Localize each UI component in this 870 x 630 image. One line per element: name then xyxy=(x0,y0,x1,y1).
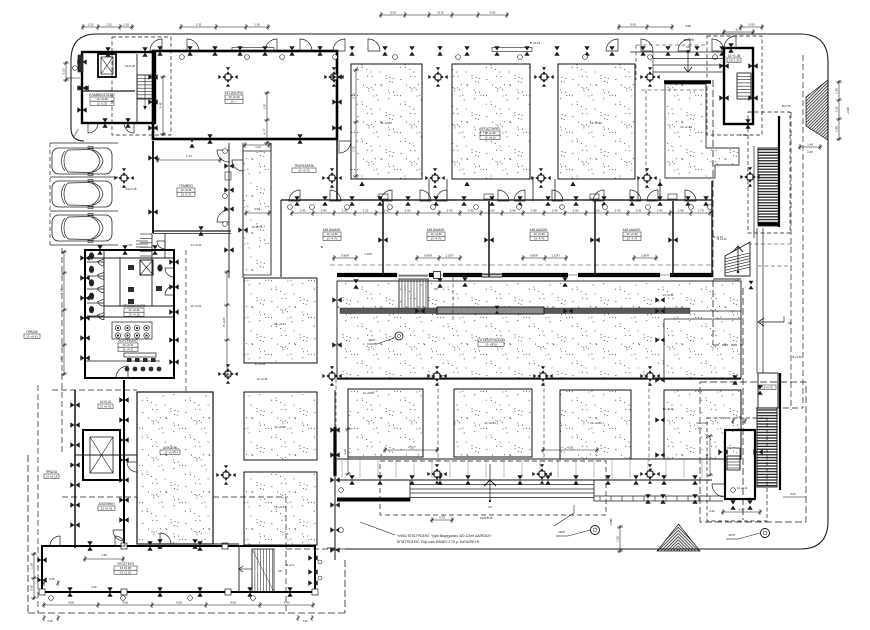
svg-text:-0.685: -0.685 xyxy=(609,518,613,526)
corridor window boxes xyxy=(379,194,388,199)
svg-text:0.90Π: 0.90Π xyxy=(341,253,349,257)
office dim xyxy=(156,159,222,161)
svg-text:13 +0.41: 13 +0.41 xyxy=(101,506,113,510)
svg-text:13 +4.15: 13 +4.15 xyxy=(128,312,140,316)
svg-text:1.40: 1.40 xyxy=(807,142,813,146)
left dimension column xyxy=(65,61,67,82)
bowties toilet top xyxy=(97,245,102,254)
svg-text:0.70: 0.70 xyxy=(439,515,445,519)
svg-text:ΑΙΘ.ΔΙΔΑΣΚ.: ΑΙΘ.ΔΙΔΑΣΚ. xyxy=(427,228,446,232)
svg-text:4.00: 4.00 xyxy=(122,600,128,604)
svg-text:1.10Π: 1.10Π xyxy=(551,253,559,257)
svg-text:Β+0.75: Β+0.75 xyxy=(684,38,694,42)
wing dashed boundary xyxy=(27,455,29,613)
svg-text:+3.48: +3.48 xyxy=(846,107,850,115)
svg-text:13 +0.41: 13 +0.41 xyxy=(274,505,286,509)
svg-text:13+0.75: 13+0.75 xyxy=(762,385,773,389)
center south wall xyxy=(333,427,336,476)
wing west block xyxy=(74,390,76,548)
hall spine bench xyxy=(340,308,690,314)
dim 1.40 2.45 east xyxy=(798,146,822,148)
right dim column xyxy=(838,80,840,141)
svg-text:13+1.35: 13+1.35 xyxy=(729,58,740,62)
left small dims xyxy=(63,250,65,376)
wing bubbles xyxy=(49,596,54,601)
elevator 2 xyxy=(83,430,120,480)
svg-text:13 +0.41: 13 +0.41 xyxy=(191,243,202,247)
elevator shaft xyxy=(98,54,116,77)
svg-text:Β +0.15: Β +0.15 xyxy=(530,41,541,45)
svg-text:5.00: 5.00 xyxy=(390,10,396,14)
bowties south facade xyxy=(349,475,354,484)
svg-text:4.77: 4.77 xyxy=(262,128,266,134)
svg-text:0.50: 0.50 xyxy=(29,585,33,591)
svg-text:UP: UP xyxy=(686,45,690,49)
bowties SE block xyxy=(718,449,727,454)
dashed property east xyxy=(712,80,714,345)
svg-text:6.00: 6.00 xyxy=(739,507,745,511)
svg-text:2.40: 2.40 xyxy=(447,208,453,212)
svg-text:13 +2.20: 13 +2.20 xyxy=(120,570,132,574)
entry up arrow xyxy=(489,500,491,502)
svg-text:2.40: 2.40 xyxy=(384,208,390,212)
svg-text:Β+0.75: Β+0.75 xyxy=(782,104,791,108)
svg-text:13 +0.75: 13 +0.75 xyxy=(298,168,310,172)
svg-text:1.20: 1.20 xyxy=(615,536,619,542)
top dimension row xyxy=(81,26,134,28)
svg-text:4.25: 4.25 xyxy=(408,445,414,449)
escalator upper xyxy=(758,148,779,226)
bowties corridor xyxy=(294,196,299,205)
svg-text:1.50: 1.50 xyxy=(59,288,63,294)
svg-text:1.10Π: 1.10Π xyxy=(445,253,453,257)
office east wall details xyxy=(225,172,231,180)
car 2 xyxy=(52,180,112,209)
svg-text:ΕΡΓΑΣΤΗΡΙΟ: ΕΡΓΑΣΤΗΡΙΟ xyxy=(480,127,500,131)
gym room xyxy=(137,392,213,544)
stair tower dashed envelope xyxy=(707,36,762,135)
svg-text:13 +4.21: 13 +4.21 xyxy=(122,347,134,351)
svg-text:UP: UP xyxy=(129,244,133,247)
hall columns xyxy=(218,67,237,86)
svg-text:5.00: 5.00 xyxy=(630,22,636,26)
wing wall columns xyxy=(121,543,127,549)
detail circle south 1 xyxy=(591,526,600,535)
wing door west xyxy=(50,536,60,546)
svg-text:1.10: 1.10 xyxy=(254,22,260,26)
entry steps south xyxy=(410,484,594,486)
wing staircase xyxy=(238,546,240,592)
detail circle south 2 xyxy=(761,529,770,538)
svg-text:Β +4.05: Β +4.05 xyxy=(222,317,226,327)
escalator column xyxy=(740,167,759,186)
toilet stalls left xyxy=(103,250,105,316)
svg-text:13 -4.70: 13 -4.70 xyxy=(431,236,442,240)
hall dashed axis xyxy=(452,277,454,320)
west wall lower xyxy=(123,380,125,548)
svg-text:13 +0.41: 13 +0.41 xyxy=(26,334,38,338)
sink counter xyxy=(112,322,152,339)
east wall upper xyxy=(778,116,780,227)
corridor dims xyxy=(290,212,712,214)
SE small room xyxy=(758,373,778,408)
lower office band xyxy=(153,233,231,235)
svg-text:4.50: 4.50 xyxy=(254,207,260,211)
svg-text:13 +0.41: 13 +0.41 xyxy=(663,407,674,411)
svg-text:13 +4.10: 13 +4.10 xyxy=(484,135,496,139)
staircase U1 xyxy=(137,75,153,99)
west dashed 2 xyxy=(37,385,39,613)
door hall SE xyxy=(339,141,351,153)
north dims small xyxy=(266,91,268,145)
svg-text:1.20: 1.20 xyxy=(29,563,33,569)
wing walls xyxy=(42,546,315,592)
classroom D2 xyxy=(664,390,741,459)
svg-text:2.40: 2.40 xyxy=(468,208,474,212)
south facade glazing xyxy=(337,479,712,481)
svg-text:ΠΡΑΣΙΑ: ΠΡΑΣΙΑ xyxy=(46,470,58,474)
bowties east corridor xyxy=(655,297,664,302)
classroom B1 xyxy=(452,64,530,179)
svg-text:13 +1.80: 13 +1.80 xyxy=(590,121,602,125)
svg-text:13 +0.41: 13 +0.41 xyxy=(164,450,176,454)
svg-text:13 +0.41: 13 +0.41 xyxy=(737,486,748,490)
svg-text:Β: Β xyxy=(650,467,652,471)
hall detail marker xyxy=(395,332,403,340)
corridor wall y201 xyxy=(281,199,712,201)
window sill top xyxy=(232,48,274,52)
svg-text:13 —: 13 — xyxy=(231,99,238,103)
top hall walls xyxy=(153,51,337,139)
svg-text:1.10Π: 1.10Π xyxy=(364,252,371,256)
svg-text:13 +0.41: 13 +0.41 xyxy=(663,293,674,297)
svg-text:1.25: 1.25 xyxy=(834,106,838,112)
shaft bubbles xyxy=(223,149,228,154)
svg-text:13+0.41: 13+0.41 xyxy=(100,400,112,404)
horizontal dashed mid xyxy=(62,496,137,498)
row1 columns bottom xyxy=(322,168,341,187)
svg-text:Β +0.4: Β +0.4 xyxy=(286,563,294,567)
svg-text:ΛΕΠΤ.: ΛΕΠΤ. xyxy=(368,338,376,342)
wing bowties top xyxy=(87,541,92,550)
top-left service block walls xyxy=(82,52,155,123)
svg-text:13 +0.80: 13 +0.80 xyxy=(590,421,602,425)
svg-text:2.11: 2.11 xyxy=(106,22,112,26)
doors on corridor wall xyxy=(289,190,300,201)
svg-text:ΑΙΘ.ΔΙΔΑΣΚ.: ΑΙΘ.ΔΙΔΑΣΚ. xyxy=(530,228,549,232)
parking column marker xyxy=(114,168,133,187)
car 3 xyxy=(52,214,112,243)
stair room SE xyxy=(725,430,755,499)
svg-text:ΑΙΘΟΥΣΑ: ΑΙΘΟΥΣΑ xyxy=(163,446,178,450)
connection corridor xyxy=(137,543,239,545)
svg-text:1.93: 1.93 xyxy=(342,208,348,212)
svg-text:ΥΛΙΚΟ ΕΠΙΣΤΡΩΣΗΣ: Υγρό Βιομηχα: ΥΛΙΚΟ ΕΠΙΣΤΡΩΣΗΣ: Υγρό Βιομηχανικό 320 1… xyxy=(397,534,492,538)
svg-text:1.80Π: 1.80Π xyxy=(641,253,649,257)
classroom D1 xyxy=(665,84,739,178)
svg-text:ΑΙΘ.ΔΙΔΑΣΚ.: ΑΙΘ.ΔΙΔΑΣΚ. xyxy=(323,228,342,232)
svg-text:0.90Π: 0.90Π xyxy=(530,253,538,257)
dim south small xyxy=(430,519,454,521)
toilet upper corridor xyxy=(85,257,174,259)
hall south wall xyxy=(337,378,741,380)
east walkway lines xyxy=(756,228,758,373)
svg-text:2.10: 2.10 xyxy=(736,415,742,419)
svg-text:0.20: 0.20 xyxy=(709,509,715,513)
left lower bowties xyxy=(70,402,79,407)
door gym west xyxy=(113,530,124,541)
corridor doors xyxy=(232,160,243,171)
stair tower NE xyxy=(724,48,753,124)
svg-text:4.00: 4.00 xyxy=(176,600,182,604)
toilet block walls xyxy=(85,250,174,378)
bowties stair tower xyxy=(719,63,728,68)
doors on north wall xyxy=(150,39,162,51)
svg-text:ΛΕΠΤ.: ΛΕΠΤ. xyxy=(728,533,736,537)
svg-text:ΥΠΟΣΤΕΓΟ: ΥΠΟΣΤΕΓΟ xyxy=(117,562,135,566)
svg-text:ΚΛΙΜΑΚΟΣΤΑΣΙΟ: ΚΛΙΜΑΚΟΣΤΑΣΙΟ xyxy=(89,93,115,97)
grid bubbles north xyxy=(180,55,185,60)
dashed line y265 xyxy=(330,264,712,266)
svg-text:13 -4.70: 13 -4.70 xyxy=(627,236,638,240)
svg-text:0.18: 0.18 xyxy=(302,619,308,623)
svg-text:Β +0.50: Β +0.50 xyxy=(792,355,802,359)
svg-text:4.08: 4.08 xyxy=(685,24,691,28)
svg-text:13 +0.41: 13 +0.41 xyxy=(100,404,112,408)
toilet mid walls xyxy=(119,258,121,306)
svg-text:13+0.20: 13+0.20 xyxy=(125,64,136,68)
svg-text:1.70: 1.70 xyxy=(698,208,704,212)
interior wall xyxy=(83,90,135,92)
svg-text:13 +0.21: 13 +0.21 xyxy=(191,304,202,308)
dashed envelope top-left xyxy=(112,37,171,135)
svg-text:13 +0.41: 13 +0.41 xyxy=(255,362,266,366)
stair east slanted xyxy=(725,242,750,276)
toilet right rooms xyxy=(151,258,153,306)
triangle marks under row1 xyxy=(359,182,364,187)
svg-text:1.40: 1.40 xyxy=(657,208,663,212)
svg-text:2.40: 2.40 xyxy=(510,208,516,212)
toilet door south xyxy=(116,366,128,378)
stair SE dashed envelope xyxy=(707,418,767,521)
stair shaft stipple strip xyxy=(243,151,271,275)
vertical dim 1.20 xyxy=(619,525,621,553)
svg-text:13 +0.18: 13 +0.18 xyxy=(46,474,58,478)
door top-left block xyxy=(88,123,98,133)
svg-text:4.20: 4.20 xyxy=(567,445,573,449)
svg-text:3.10: 3.10 xyxy=(343,449,347,455)
car 1 xyxy=(52,147,112,176)
svg-text:13 +0.80: 13 +0.80 xyxy=(696,421,708,425)
svg-text:2.40: 2.40 xyxy=(678,208,684,212)
svg-text:13Χ18/16: 13Χ18/16 xyxy=(480,516,493,520)
escalator lower xyxy=(757,408,777,487)
svg-text:1.57: 1.57 xyxy=(262,103,266,109)
east walkway arrow xyxy=(760,321,784,323)
mini stair west xyxy=(140,233,152,235)
svg-text:1.40: 1.40 xyxy=(531,208,537,212)
svg-text:7.48: 7.48 xyxy=(101,553,107,557)
svg-text:1.40: 1.40 xyxy=(834,88,838,94)
lower rooms partitions xyxy=(382,201,384,277)
svg-text:5.00: 5.00 xyxy=(749,22,755,26)
svg-text:4.00: 4.00 xyxy=(284,600,290,604)
bowties hall perimeter xyxy=(148,74,157,79)
bottom fixtures xyxy=(125,367,130,372)
svg-text:1.40: 1.40 xyxy=(300,208,306,212)
svg-text:ΤΡΑΠΕΖΑΡΙΑ: ΤΡΑΠΕΖΑΡΙΑ xyxy=(294,164,314,168)
svg-text:UP: UP xyxy=(788,321,792,325)
bowties on spine xyxy=(415,308,424,313)
classroom C2 xyxy=(560,390,631,459)
entry dashed surround xyxy=(380,461,606,515)
hall stair xyxy=(399,279,428,309)
svg-text:1.10: 1.10 xyxy=(123,22,129,26)
row1 columns top xyxy=(428,67,447,86)
escalator dashed envelope xyxy=(748,112,790,233)
svg-text:1.10: 1.10 xyxy=(88,22,94,26)
mini stair up xyxy=(136,240,148,242)
svg-text:13 +0.41: 13 +0.41 xyxy=(274,322,286,326)
svg-text:1.22: 1.22 xyxy=(363,208,369,212)
svg-text:ΠΡΟΘΑΛΑΜΟΣ: ΠΡΟΘΑΛΑΜΟΣ xyxy=(123,304,146,308)
dashed aisle east xyxy=(185,250,187,392)
facade mullions xyxy=(341,459,343,478)
classroom B2 xyxy=(454,389,532,457)
svg-text:13 +1.10: 13 +1.10 xyxy=(680,125,692,129)
row2 columns xyxy=(322,366,341,385)
svg-text:13 +0.80: 13 +0.80 xyxy=(274,425,286,429)
svg-text:2.40: 2.40 xyxy=(321,208,327,212)
svg-text:13 +0.41: 13 +0.41 xyxy=(257,377,268,381)
svg-text:ΑΙΘ.ΔΙΔΑΣΚ.: ΑΙΘ.ΔΙΔΑΣΚ. xyxy=(623,228,642,232)
svg-text:0.90: 0.90 xyxy=(92,586,97,589)
svg-text:ΑΠΟΘΗΚΗ: ΑΠΟΘΗΚΗ xyxy=(98,502,115,506)
svg-text:UP: UP xyxy=(488,505,492,509)
svg-text:1.12: 1.12 xyxy=(186,154,192,158)
wing dim 1.48 xyxy=(83,558,125,560)
x room xyxy=(140,260,153,275)
top entry steps xyxy=(630,51,723,53)
svg-text:13 -4.70: 13 -4.70 xyxy=(534,236,545,240)
svg-text:13+0.18: 13+0.18 xyxy=(126,187,137,191)
hall interior dim xyxy=(162,75,164,136)
svg-text:2.40: 2.40 xyxy=(552,208,558,212)
west property dashes xyxy=(61,248,63,455)
svg-text:3.75: 3.75 xyxy=(351,146,355,152)
svg-text:13 +0.75: 13 +0.75 xyxy=(252,225,263,229)
south colonnade xyxy=(594,495,723,497)
parking stalls xyxy=(50,142,118,144)
svg-text:2.11: 2.11 xyxy=(196,22,202,26)
svg-text:ΣΥΓΚΕΝΤΡΩΣΕΩΝ: ΣΥΓΚΕΝΤΡΩΣΕΩΝ xyxy=(477,338,505,342)
svg-text:ΠΡΑΣΙΑ: ΠΡΑΣΙΑ xyxy=(26,330,38,334)
svg-text:ΕΠΙΣΤΡΩΣΕΙΣ: Clip Lock ΠΑΝΕΛ 2: ΕΠΙΣΤΡΩΣΕΙΣ: Clip Lock ΠΑΝΕΛ 2.70 μ. ΚΑΤ… xyxy=(397,540,480,544)
row2 dims xyxy=(383,449,439,451)
site boundary xyxy=(71,34,828,549)
bubble column south xyxy=(339,528,344,533)
svg-text:2.40: 2.40 xyxy=(615,208,621,212)
svg-text:ΛΟΥΤΡΑ ΔΥΟ: ΛΟΥΤΡΑ ΔΥΟ xyxy=(118,339,138,343)
svg-text:ΓΡΑΦΕΙΟ: ΓΡΑΦΕΙΟ xyxy=(179,184,193,188)
classroom C1 xyxy=(558,64,635,179)
svg-text:2.45: 2.45 xyxy=(807,150,813,154)
south columns xyxy=(216,465,235,484)
svg-text:5.45: 5.45 xyxy=(158,102,162,108)
classroom A1 xyxy=(351,64,422,179)
svg-text:5.10: 5.10 xyxy=(61,68,65,74)
svg-text:Β: Β xyxy=(321,245,323,249)
svg-text:0.18: 0.18 xyxy=(47,619,53,623)
svg-text:1.12: 1.12 xyxy=(255,145,261,149)
row1 gap walls xyxy=(428,179,430,201)
dim column east of toilets xyxy=(226,270,228,375)
svg-text:2.45: 2.45 xyxy=(636,208,642,212)
svg-text:6.00: 6.00 xyxy=(736,27,742,31)
svg-text:0.46: 0.46 xyxy=(50,578,55,581)
svg-text:0.92: 0.92 xyxy=(490,10,496,14)
svg-text:0.90Π: 0.90Π xyxy=(424,253,432,257)
east wall lower xyxy=(779,373,781,490)
west rooms wall xyxy=(152,141,154,233)
urinal strip xyxy=(124,353,156,357)
SE dim vertical xyxy=(709,435,711,476)
svg-text:3.75: 3.75 xyxy=(351,93,355,99)
row2 axis dashes xyxy=(437,382,439,461)
svg-text:Β +0.2: Β +0.2 xyxy=(740,133,748,137)
top entry dashed xyxy=(636,44,707,46)
corridor grid bubbles xyxy=(288,205,293,210)
classroom A2 xyxy=(348,389,423,457)
spine wall xyxy=(337,273,713,277)
wing bowties bottom xyxy=(67,587,72,596)
corridor shaft verticals xyxy=(228,143,230,278)
shaft dim xyxy=(244,212,271,214)
svg-text:13 -0.20: 13 -0.20 xyxy=(97,101,108,105)
room D1 top thick wall xyxy=(664,80,711,84)
svg-text:4.00: 4.00 xyxy=(230,600,236,604)
svg-text:13 +1.35: 13 +1.35 xyxy=(728,54,741,58)
svg-text:13 +0.20: 13 +0.20 xyxy=(485,342,497,346)
bowties toilet west wall xyxy=(80,255,89,260)
svg-text:1.50: 1.50 xyxy=(834,126,838,132)
lower rooms sill dims xyxy=(332,257,358,259)
south corridor wall xyxy=(337,458,712,460)
hatch triangle south xyxy=(657,524,700,551)
svg-text:ΕΣΤΙΑΤΟΡΙΟ: ΕΣΤΙΑΤΟΡΙΟ xyxy=(225,91,244,95)
svg-text:13 +0.80: 13 +0.80 xyxy=(380,121,392,125)
bowties hall west xyxy=(332,297,341,302)
svg-text:5.00: 5.00 xyxy=(790,492,796,496)
dim 8.00 top xyxy=(722,31,755,33)
svg-text:13 +0.80: 13 +0.80 xyxy=(363,391,374,395)
svg-text:13 -0.75: 13 -0.75 xyxy=(181,192,192,196)
svg-text:2.40: 2.40 xyxy=(405,208,411,212)
dim 6.00 SE xyxy=(721,511,762,513)
colonnade bowties xyxy=(645,494,650,503)
bowties top-left block xyxy=(77,59,86,64)
top entry arrow xyxy=(687,50,690,53)
bowties toilet east wall xyxy=(169,259,178,264)
service duct xyxy=(78,55,83,72)
svg-text:13 +0.81: 13 +0.81 xyxy=(484,421,496,425)
wing south dims xyxy=(42,604,315,606)
svg-text:13 -4.70: 13 -4.70 xyxy=(327,236,338,240)
svg-text:UP: UP xyxy=(278,570,282,573)
bowties north wall xyxy=(157,46,162,55)
room A1 interior dim xyxy=(355,68,357,178)
svg-text:ΛΕΠΤ.: ΛΕΠΤ. xyxy=(558,530,566,534)
